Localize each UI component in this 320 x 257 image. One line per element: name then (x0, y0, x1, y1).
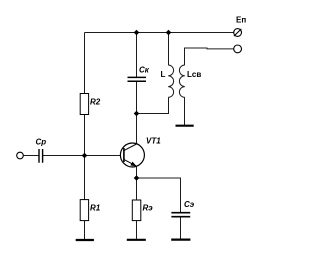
svg-text:L: L (161, 70, 166, 79)
transistor VT1 (120, 137, 161, 167)
resistor R2 (80, 94, 101, 115)
svg-text:VT1: VT1 (146, 137, 161, 146)
wire L bottom to collector node (137, 97, 169, 113)
inductor Lcb (179, 65, 201, 97)
svg-text:Cэ: Cэ (184, 200, 195, 209)
wire Lcb top to output terminal (185, 48, 234, 65)
terminal En (supply) (234, 15, 247, 36)
svg-text:Cр: Cр (36, 138, 47, 147)
resistor Re (132, 200, 153, 221)
terminal input (17, 152, 24, 159)
wire R1 bottom to ground (84, 221, 86, 239)
ground Lcb (176, 125, 194, 127)
node dot collector L (134, 111, 140, 117)
terminal output (234, 45, 242, 53)
svg-text:Eп: Eп (236, 15, 246, 24)
capacitor Cp (36, 138, 47, 163)
wire top rail (85, 32, 234, 34)
wire Re bottom to ground (136, 221, 138, 239)
node dot top L (166, 30, 172, 36)
wire R2 bottom to R1 top (84, 115, 86, 200)
svg-text:Cк: Cк (139, 66, 150, 75)
ground Re (127, 239, 146, 241)
wire emitter node to Ce (137, 178, 181, 212)
wire left vertical R2 top (84, 33, 86, 94)
wire Lcb bottom to ground (184, 97, 186, 125)
wire emitter down (136, 166, 138, 200)
resistor R1 (80, 200, 101, 221)
wire L top (168, 33, 170, 66)
node dot emitter (134, 175, 140, 181)
svg-text:Lсв: Lсв (187, 70, 201, 79)
capacitor Ck (128, 66, 150, 82)
wire Ck branch collector (136, 33, 138, 78)
svg-text:Rэ: Rэ (143, 203, 154, 212)
ground Ce (171, 239, 190, 241)
node dot top Ck (134, 30, 140, 36)
ground R1 (76, 239, 94, 241)
wire Ce bottom to ground (180, 217, 182, 239)
svg-text:R1: R1 (90, 203, 101, 212)
inductor L (161, 65, 174, 97)
wire input to Cp (23, 155, 39, 157)
wire Cp to base (43, 155, 121, 157)
node dot base (82, 153, 88, 159)
svg-text:R2: R2 (90, 97, 101, 106)
capacitor Ce (171, 200, 194, 217)
